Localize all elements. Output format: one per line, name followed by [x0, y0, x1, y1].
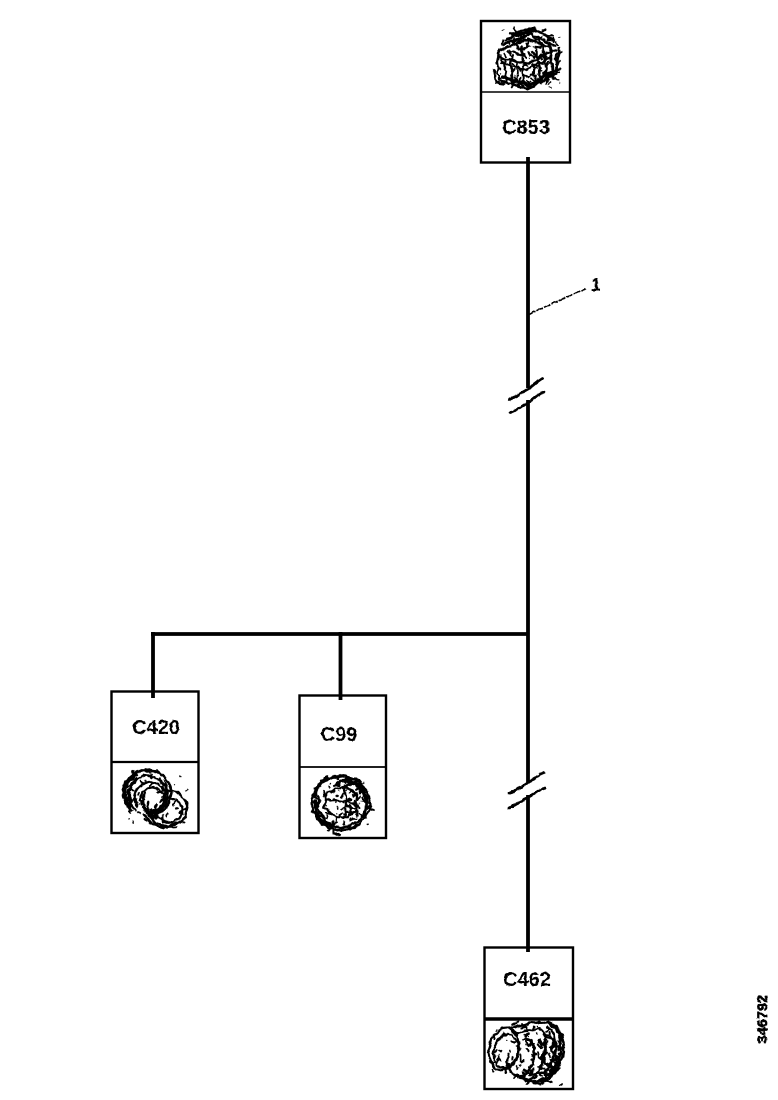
wire horizontal branch: [151, 632, 528, 636]
wire drop to C420: [151, 632, 155, 698]
connector C462 label: [503, 969, 551, 991]
break mark (lower) on main wire: [509, 773, 545, 809]
svg-text:346792: 346792: [754, 995, 770, 1044]
break mark (upper) on main wire: [510, 379, 544, 414]
connector C420 illustration: [123, 770, 187, 828]
label 1: [591, 275, 601, 295]
callout leader line for label 1: [529, 289, 586, 315]
connector C99 label: [321, 724, 358, 746]
svg-text:C462: C462: [503, 969, 551, 991]
svg-text:C420: C420: [132, 717, 180, 739]
part number (rotated): [754, 995, 770, 1044]
connector C853 illustration: [494, 27, 561, 89]
connector C462 illustration: [488, 1022, 564, 1086]
svg-text:C853: C853: [502, 117, 550, 139]
connector C420 label: [132, 717, 180, 739]
connector C853 label: [502, 117, 550, 139]
svg-text:1: 1: [591, 275, 601, 295]
connector C99 illustration: [312, 776, 374, 834]
wire main vertical from lower break to C462: [526, 795, 530, 952]
wire main vertical between breaks: [526, 400, 530, 783]
connector C462 box: [485, 948, 574, 1090]
wire main vertical from C853 to upper break: [526, 157, 530, 388]
connector C853 box: [481, 21, 570, 163]
wire drop to C99: [339, 632, 343, 700]
svg-text:C99: C99: [321, 724, 358, 746]
connector C420 box: [112, 692, 199, 834]
connector C99 box: [300, 696, 387, 839]
